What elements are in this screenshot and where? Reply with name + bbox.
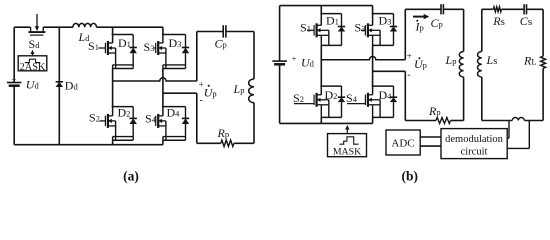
wire left rail lower (a) (13, 86, 15, 145)
svg-text:demodulation: demodulation (445, 134, 503, 145)
inductor Ls (477, 52, 481, 78)
voltage source Ud (a) (7, 82, 22, 84)
diode D2 (fig a) (132, 107, 134, 119)
wire S1 drain riser (a) (112, 27, 114, 34)
transistor S4 (fig b) (347, 103, 365, 105)
svg-text:S1: S1 (300, 21, 311, 35)
transistor S4 (fig a) (155, 120, 157, 122)
block demodulation circuit (441, 129, 507, 159)
svg-text:Lp: Lp (445, 53, 457, 67)
wire S3 drain riser (b) (372, 6, 374, 14)
wire top rail left of Sd (a) (14, 26, 30, 28)
wire arrow MASK to bridge (346, 129, 348, 133)
diode D4 (fig a) (185, 107, 187, 119)
svg-text:Lp: Lp (233, 82, 245, 96)
svg-text:2ASK: 2ASK (20, 62, 46, 73)
wire bottom rail (b) (280, 122, 373, 124)
wire load loop left lower (a) (196, 93, 198, 143)
wire left leg mid (b) (320, 45, 322, 86)
svg-text:(b): (b) (402, 169, 419, 184)
svg-text:ADC: ADC (391, 137, 414, 149)
wire Dd branch upper (a) (58, 27, 60, 82)
svg-text:RL: RL (523, 54, 537, 68)
svg-text:D4: D4 (167, 106, 181, 120)
diode D1 (fig a) (132, 35, 134, 48)
wire secondary top 1 (b) (482, 8, 494, 10)
wire bottom rail (a) (14, 144, 163, 146)
wire secondary left upper (b) (481, 9, 483, 51)
svg-text:S4: S4 (346, 91, 358, 105)
diode Dd (56, 81, 63, 83)
capacitor Cp (b) (440, 4, 442, 14)
svg-text:D3: D3 (169, 36, 182, 50)
svg-text:D1: D1 (326, 14, 339, 28)
svg-text:Rp: Rp (217, 126, 230, 140)
svg-text:circuit: circuit (461, 147, 488, 158)
wire right leg mid (b) (372, 45, 374, 86)
wire left rail lower (b) (279, 64, 281, 123)
wire secondary bottom left (b) (482, 120, 513, 122)
wire S2 source riser (b) (320, 117, 322, 123)
svg-text:(a): (a) (123, 169, 139, 184)
wire port upper vertical (b) (404, 9, 406, 59)
wire secondary right upper (b) (542, 9, 544, 56)
wire ADC-demod lower (420, 145, 441, 147)
wire load loop right lower (a) (253, 103, 255, 144)
wire pickup lead left (508, 121, 510, 139)
wire secondary top 3 (b) (527, 8, 544, 10)
svg-text:Sd: Sd (29, 37, 41, 51)
wire diode-box of S2 (fig a) (112, 107, 114, 116)
resistor Rp (a) (221, 140, 234, 146)
voltage source Ud (b) (272, 60, 287, 62)
pulse glyph in MASK block (340, 137, 359, 144)
transistor Sd (series 2ASK switch) (30, 27, 32, 31)
diode D4 (fig b) (393, 86, 395, 97)
wire top rail Sd to Ld (a) (43, 26, 73, 28)
wire S2 source riser (a) (112, 140, 114, 145)
wire lower output (a) (163, 92, 197, 94)
wire S3 drain riser (a) (162, 27, 164, 34)
wire lower output (b) (373, 70, 406, 72)
wire diode-box of S4 (fig a) (162, 107, 164, 116)
wire pickup lead right (528, 121, 530, 149)
wire primary top right (b) (443, 8, 463, 10)
svg-text:Ls: Ls (486, 53, 498, 67)
transistor S1 (fig b) (307, 29, 314, 31)
block 2ASK modulator (18, 56, 47, 71)
diode D2 (fig b) (341, 86, 343, 97)
wire load loop right upper (a) (253, 32, 255, 80)
svg-text:Cs: Cs (520, 14, 532, 28)
wire primary right upper (b) (463, 9, 465, 51)
wire port lower vertical (b) (404, 71, 406, 120)
svg-text:S1: S1 (88, 39, 99, 53)
wire primary bottom right (b) (451, 120, 464, 122)
svg-text:D1: D1 (118, 36, 131, 50)
resistor Rp (b) (436, 118, 450, 124)
inductor Ld (73, 23, 97, 27)
transistor S3 (fig b) (361, 29, 365, 31)
wire top rail (b) (280, 5, 373, 7)
svg-text:Up: Up (414, 57, 427, 71)
current arrow Ip (413, 16, 425, 18)
wire diode-box of S1 (fig b) (320, 14, 322, 26)
svg-text:Dd: Dd (65, 79, 79, 93)
wire secondary right lower (b) (542, 68, 544, 120)
svg-text:S2: S2 (293, 91, 304, 105)
svg-text:-: - (200, 95, 203, 106)
diode D3 (fig b) (393, 14, 395, 27)
wire S4 source riser (a) (162, 140, 164, 145)
inductor Lp (a) (249, 79, 254, 103)
svg-text:D2: D2 (325, 88, 338, 102)
wire diode-box of S3 (fig b) (372, 14, 374, 26)
wire left rail upper (b) (279, 6, 281, 62)
inductor Lp (b) (459, 52, 463, 78)
svg-text:MASK: MASK (333, 147, 361, 158)
wire load loop bottom left (a) (197, 142, 221, 144)
svg-text:D2: D2 (118, 106, 131, 120)
transistor S3 (fig a) (154, 47, 156, 49)
svg-text:Ud: Ud (301, 56, 315, 70)
wire primary top left (b) (405, 8, 441, 10)
wire secondary left lower (b) (481, 77, 483, 121)
wire diode-box of S4 (fig b) (372, 86, 374, 95)
wire diode-box of S2 (fig b) (320, 86, 322, 95)
block ADC (386, 130, 420, 155)
svg-text:Up: Up (204, 86, 217, 100)
svg-text:Cp: Cp (215, 37, 227, 51)
wire ADC-demod upper (420, 136, 441, 138)
svg-text:Rp: Rp (428, 104, 441, 118)
block MASK (328, 134, 367, 157)
wire arrow 2ASK to Sd gate (32, 53, 34, 55)
diode D1 (fig b) (341, 14, 343, 27)
wire S4 source riser (b) (372, 117, 374, 123)
wire diode-box of S1 (fig a) (112, 35, 114, 44)
svg-text:Ip: Ip (415, 20, 424, 34)
svg-text:-: - (407, 70, 410, 81)
pulse glyph in 2ASK block (25, 59, 40, 62)
svg-text:Rs: Rs (492, 14, 505, 28)
transistor S2 (fig b) (294, 103, 314, 105)
svg-text:Cp: Cp (431, 16, 443, 30)
svg-text:+: + (407, 52, 412, 62)
svg-text:+: + (292, 53, 297, 63)
svg-text:D3: D3 (379, 14, 392, 28)
svg-text:+: + (11, 74, 16, 84)
wire load loop left upper (a) (196, 32, 198, 82)
wire upper output with crossover hump (a) (113, 78, 197, 81)
wire secondary top 2 (b) (502, 8, 525, 10)
resistor RL (541, 56, 546, 68)
svg-text:S3: S3 (355, 21, 366, 35)
wire right leg mid (a) (162, 69, 164, 107)
svg-text:S4: S4 (145, 112, 157, 126)
wire diode-box of S3 (fig a) (162, 35, 164, 44)
wire load loop top right (a) (226, 31, 254, 33)
wire upper output with crossover hump (b) (321, 57, 405, 60)
diode D3 (fig a) (185, 35, 187, 48)
wire left rail upper (a) (13, 27, 15, 82)
wire primary bottom left (b) (405, 120, 436, 122)
wire top rail Ld to bridge (a) (97, 26, 163, 28)
wire S1 drain riser (b) (320, 6, 322, 14)
svg-text:D4: D4 (379, 88, 393, 102)
capacitor Cs (523, 4, 525, 14)
wire left leg mid (a) (112, 69, 114, 107)
svg-text:S2: S2 (89, 111, 100, 125)
wire load loop top left (a) (197, 31, 223, 33)
capacitor Cp (a) (222, 25, 224, 37)
wire load loop bottom right (a) (234, 142, 254, 144)
wire secondary bottom right (b) (524, 120, 543, 122)
transistor S1 (fig a) (99, 47, 106, 49)
svg-text:S3: S3 (144, 40, 155, 54)
pickup coil on secondary bottom wire (512, 118, 524, 121)
wire Dd branch lower (a) (58, 87, 60, 145)
wire primary right lower (b) (463, 77, 465, 121)
resistor Rs (493, 7, 501, 12)
transistor S2 (fig a) (100, 120, 106, 122)
svg-text:Ud: Ud (26, 78, 40, 92)
